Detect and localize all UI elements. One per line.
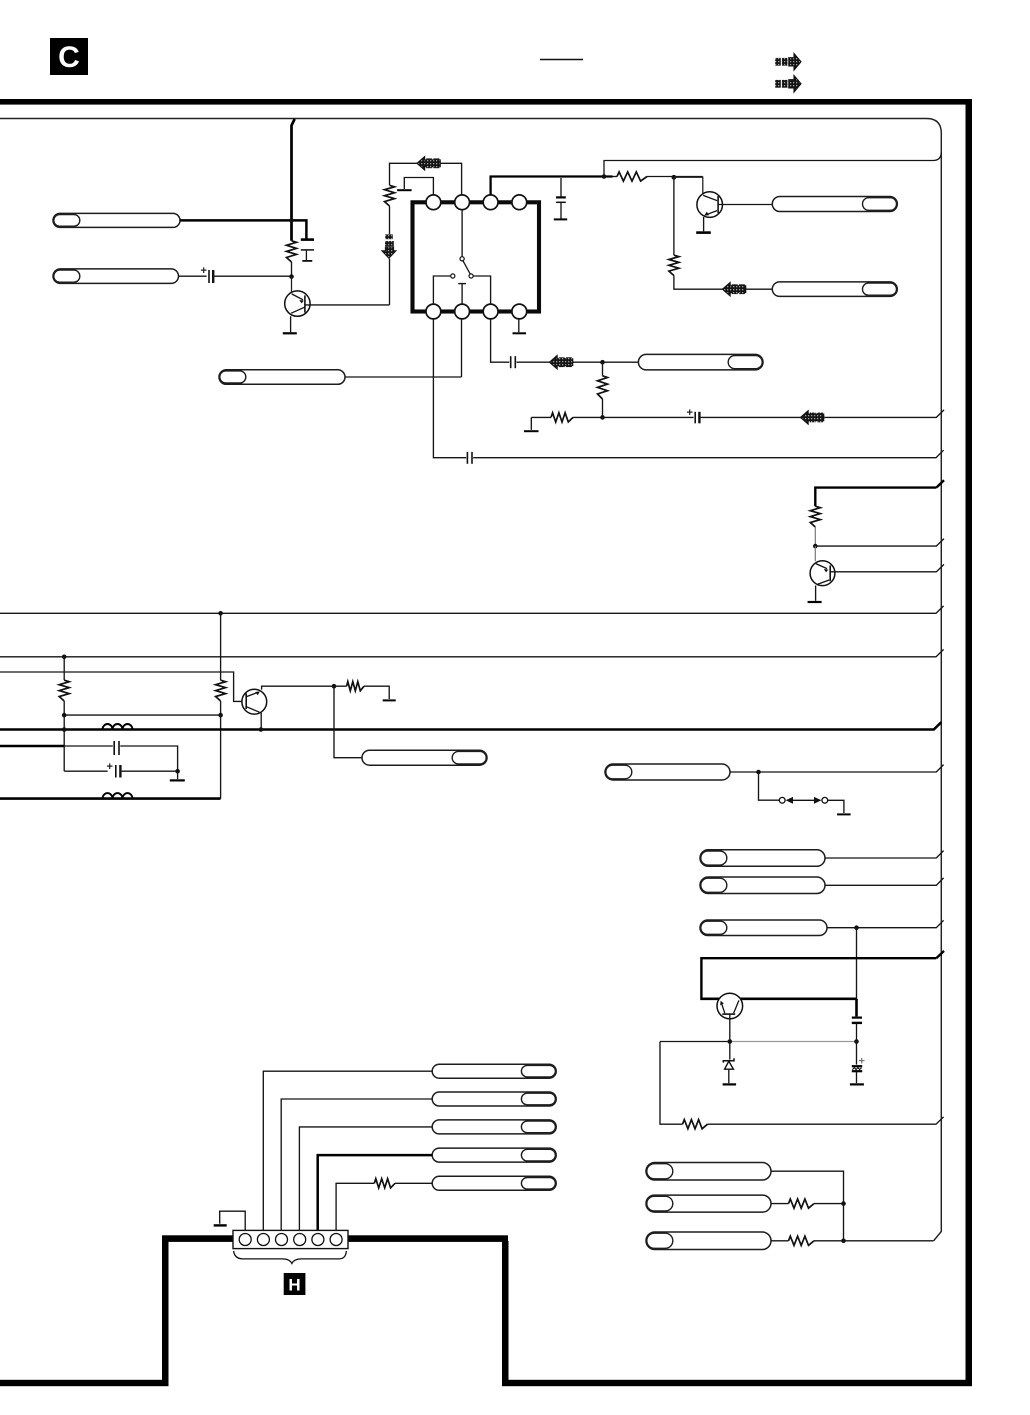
resistor R10 — [216, 680, 226, 701]
thick stub y746 — [0, 745, 64, 748]
wire bus to C3 — [560, 178, 562, 197]
junction bus Q5 emitter — [259, 727, 264, 732]
resistor R9 — [59, 680, 69, 701]
connector H pin 2 — [257, 1234, 269, 1246]
signal pill P9 — [700, 850, 825, 867]
connector label pill P14 — [432, 1120, 556, 1134]
connector H pin 6 — [330, 1234, 342, 1246]
thick wire Q4 collector row — [700, 997, 856, 1000]
resistor R1 — [287, 241, 297, 262]
wire A4 to bus — [824, 410, 944, 418]
wire down arrow to Q1 collector — [389, 259, 391, 305]
resistor R4 — [617, 172, 647, 181]
wire zener to ground — [728, 1069, 730, 1083]
capacitor C3 — [556, 197, 566, 218]
signal pill P18 — [646, 1195, 771, 1212]
junction P8 row — [756, 770, 761, 775]
resistor R14 — [789, 1236, 815, 1245]
wire node to R3 — [673, 177, 675, 255]
wire C5 to arrow A4 — [701, 416, 801, 418]
wire Q1 emitter — [290, 316, 292, 332]
wire R3 to arrow A2 — [674, 276, 723, 290]
transistor Q4 — [717, 993, 743, 1019]
transistor Q2 — [674, 177, 723, 217]
junction bus band wire — [602, 174, 607, 179]
wire pill P3 to pin6 — [345, 319, 462, 377]
net wire with arrow A1 — [390, 163, 462, 195]
signal pill P7 — [362, 750, 487, 765]
wire P17 corner — [771, 1171, 844, 1203]
wire bus to R4 — [613, 176, 618, 178]
junction y715 left — [62, 713, 67, 718]
wire A3 to pill P6 — [573, 361, 638, 363]
wire Q3 collector to bus — [830, 564, 944, 571]
transistor Q5 — [242, 689, 267, 714]
wire pin1 H to ground — [220, 1211, 246, 1230]
brace under connector — [234, 1251, 347, 1263]
wire cross link y715 — [64, 714, 220, 716]
net flag arrow 1 top-right — [775, 54, 801, 71]
junction C7 C8 — [175, 769, 180, 774]
heavy wire P1 to cap C1 — [180, 220, 306, 238]
pin 6 U1 bottom — [455, 304, 470, 319]
svg-text:C: C — [58, 41, 80, 74]
junction Q2 base node — [672, 175, 677, 180]
resistor R13 — [789, 1199, 815, 1208]
junction zener node — [728, 1039, 733, 1044]
wire node to Q3 base — [814, 546, 816, 561]
signal pill P10 — [700, 877, 825, 894]
wire down — [843, 1204, 845, 1241]
junction bus x64 — [62, 727, 67, 732]
wire R10 down — [220, 701, 222, 799]
connector H pin 4 — [294, 1234, 306, 1246]
junction L1 — [218, 611, 223, 616]
capacitor C6 — [467, 452, 472, 464]
wire pole to pin6 — [461, 284, 463, 305]
connector H pin 1 — [239, 1234, 251, 1246]
wire C7 corner down — [120, 746, 177, 771]
resistor R11 — [683, 1120, 708, 1129]
net label arrow A3 — [550, 356, 573, 369]
switch contact top — [460, 257, 464, 261]
wire P2 to C2 — [179, 275, 207, 277]
wire right contact to pin7 — [473, 276, 490, 305]
wire P14 to pin4 H — [299, 1127, 432, 1230]
connector H pin 5 — [312, 1234, 324, 1246]
signal pill P17 — [646, 1163, 771, 1181]
wire P8 to bus — [730, 765, 944, 772]
wire row 1041 right — [730, 1041, 857, 1043]
wire to C8 — [64, 770, 107, 772]
junction y715 right — [218, 713, 223, 718]
switch contact right — [469, 274, 473, 278]
wire Q1 collector — [305, 304, 390, 306]
wire P13 to pin3 H — [281, 1099, 432, 1230]
net flag arrow 2 top-right — [775, 76, 801, 93]
wire Q2 collector to pill P4 — [718, 204, 772, 206]
title dash — [540, 59, 583, 61]
switch pole bar — [458, 283, 466, 285]
junction collector node — [332, 684, 337, 689]
connector label pill P2 — [53, 269, 179, 284]
net label arrow A1 — [417, 157, 440, 170]
pin 7 U1 bottom — [483, 304, 498, 319]
ground under Q1 — [283, 332, 297, 334]
heavy wire bus to R7 — [815, 488, 936, 507]
ground Q2 — [696, 231, 711, 234]
connector label pill P15 — [432, 1148, 556, 1162]
capacitor C4 — [511, 356, 516, 368]
signal pill P6 — [638, 354, 763, 370]
net label down arrow A5 — [382, 234, 396, 258]
capacitor C10 electrolytic — [852, 1056, 865, 1072]
ground C3 — [554, 218, 567, 220]
wire R6 to C5 — [573, 416, 694, 418]
connector H pin 3 — [276, 1234, 288, 1246]
wire P19 to R14 — [771, 1240, 789, 1242]
junction Q3 base node — [813, 544, 818, 549]
svg-text:+: + — [201, 265, 207, 277]
wire P10 to bus — [825, 878, 944, 885]
wire node down to pill P7 — [334, 686, 362, 758]
wire R8 to ground — [334, 686, 389, 699]
capacitor C5 electrolytic — [687, 407, 700, 423]
junction P18 row — [841, 1201, 846, 1206]
signal pill P11 — [700, 920, 827, 936]
wire R4 to Q2 — [647, 176, 703, 178]
heavy wire pin3 bus — [491, 177, 613, 195]
wire pin1 to ground — [404, 178, 433, 195]
ground connector H — [214, 1224, 227, 1226]
sheet label C — [50, 38, 88, 75]
thick emitter bus — [0, 722, 941, 729]
resistor R12 — [374, 1179, 395, 1188]
wire P18 to R13 — [771, 1203, 789, 1205]
wire R9 down — [63, 701, 65, 771]
signal pill P19 — [646, 1232, 771, 1250]
connector label H — [284, 1273, 306, 1295]
wire R5 — [602, 362, 604, 417]
thick wire P15 to pin5 H — [318, 1155, 433, 1230]
wire P11 to bus — [827, 920, 944, 927]
wire C10 to ground — [856, 1072, 858, 1083]
coil L1b — [103, 793, 133, 799]
resistor R3 — [669, 255, 679, 275]
wire L1 to R10 — [220, 613, 222, 680]
capacitor C9 — [852, 1018, 862, 1042]
wire gnd to R6 — [531, 416, 551, 418]
ground C10 — [850, 1083, 864, 1085]
wire L2 to R9 — [63, 657, 65, 680]
transistor Q1 — [285, 277, 310, 317]
bus tick thick Q4 — [936, 951, 944, 958]
transistor Q3 — [810, 561, 835, 586]
long line L2 — [0, 649, 944, 656]
switch blade — [463, 261, 470, 274]
pin 2 U1 top — [455, 195, 470, 210]
capacitor C1 — [301, 240, 314, 261]
ground stem row 418 — [530, 417, 532, 429]
wire pin7 to C4 — [491, 319, 510, 363]
bus tick thick Q3 — [936, 480, 944, 487]
wire R7 to node — [814, 527, 816, 546]
ground pin8 — [513, 332, 527, 334]
capacitor C8 electrolytic — [107, 761, 121, 778]
ground row 418 — [524, 430, 539, 432]
zener diode D1 — [723, 1058, 734, 1069]
signal pill P5 — [772, 282, 897, 297]
junction C10 node — [854, 1039, 859, 1044]
wire to C7 — [64, 745, 113, 747]
wire P12 to pin2 H — [263, 1071, 432, 1230]
wire pin2 to switch contact — [461, 210, 463, 257]
junction node A — [289, 274, 294, 279]
capacitor C7 — [114, 741, 119, 755]
wire C2 to node A — [213, 275, 291, 277]
wire P16 to R12 — [395, 1182, 432, 1184]
net label arrow A4 — [801, 411, 824, 424]
wire R11 to bus — [708, 1117, 944, 1124]
connector H box — [233, 1230, 348, 1248]
wire C4 to arrow A3 — [517, 361, 550, 363]
wire P9 to bus — [825, 851, 944, 858]
wire R13 to junction — [814, 1203, 844, 1205]
ground Q3 — [808, 601, 822, 603]
connector label pill P13 — [432, 1092, 556, 1106]
wire to zener D1 — [729, 1042, 731, 1060]
pin 5 U1 bottom — [426, 304, 441, 319]
wire node to bus — [815, 539, 944, 547]
wire R2 to down arrow — [389, 206, 391, 234]
pin 1 U1 top — [426, 195, 441, 210]
wire row 1041 left — [660, 1041, 730, 1043]
coil L1a on bus — [103, 724, 133, 730]
resistor R8 — [347, 682, 364, 691]
svg-text:+: + — [687, 407, 693, 419]
wire to gap — [759, 772, 780, 800]
wire Q5 emitter to bus — [260, 713, 262, 730]
block band lower edge wire — [604, 152, 941, 177]
spark gap adjust symbol — [779, 797, 827, 804]
signal pill P8 — [605, 764, 730, 780]
connector label pill P3 — [219, 370, 345, 385]
block outline top edge and right bus — [0, 119, 941, 1241]
wire C6 to bus — [473, 450, 943, 458]
line L3 to Q5 base — [0, 672, 242, 701]
ground stem C8 — [177, 771, 179, 779]
resistor R6 — [551, 413, 573, 422]
pin 3 U1 top — [483, 195, 498, 210]
relay box U1 — [413, 202, 540, 311]
wire pin5 down to C6 — [433, 319, 466, 458]
junction P6 row — [600, 360, 605, 365]
ground zener — [723, 1083, 737, 1085]
resistor R2 — [385, 185, 395, 206]
long line L1 — [0, 606, 944, 613]
net label arrow A2 — [723, 283, 746, 296]
capacitor C2 electrolytic — [201, 265, 214, 283]
wire A2 to pill P5 — [746, 288, 772, 290]
wire Q2 emitter — [703, 217, 705, 231]
svg-text:+: + — [107, 761, 113, 773]
wire Q4 emitter — [729, 1014, 731, 1041]
junction P11 row — [854, 925, 859, 930]
wire R14 to bus end — [814, 1240, 934, 1242]
wire R1 to node A — [291, 262, 293, 277]
connector label pill P16 — [432, 1176, 556, 1190]
wire C8 to junction — [122, 770, 178, 772]
wire gap to ground — [828, 800, 844, 813]
ground C8 — [170, 779, 185, 781]
connector label pill P1 — [53, 213, 180, 227]
junction L2 — [62, 655, 67, 660]
resistor R7 — [810, 506, 820, 527]
resistor R5 — [598, 376, 608, 399]
thick line y798 — [0, 797, 221, 800]
thick stub to C9 — [855, 999, 858, 1017]
ground R8 — [383, 699, 396, 701]
junction node B — [289, 218, 294, 223]
svg-text:H: H — [288, 1276, 300, 1295]
switch contact left — [451, 274, 455, 278]
heavy wire node B vertical — [292, 119, 295, 241]
wire pin8 to ground — [518, 319, 520, 333]
signal pill P4 — [772, 197, 897, 212]
wire left contact to pin5 — [433, 276, 450, 305]
wire Q3 emitter — [815, 586, 817, 601]
wire Q5 collector — [262, 686, 334, 689]
ground pin1 — [397, 189, 412, 191]
ground spark gap — [837, 813, 851, 815]
junction P19 row — [841, 1239, 846, 1244]
wire to C10 — [856, 1042, 858, 1065]
pin 4 U1 top — [512, 195, 527, 210]
thick wire bus to Q4 — [701, 958, 936, 997]
wire corner to R11 — [660, 1042, 683, 1125]
pin 8 U1 bottom — [512, 304, 527, 319]
wire R12 to pin6 H — [336, 1183, 374, 1230]
connector label pill P12 — [432, 1064, 556, 1078]
junction row 418 — [600, 415, 605, 420]
wire down to thick node — [856, 928, 858, 999]
